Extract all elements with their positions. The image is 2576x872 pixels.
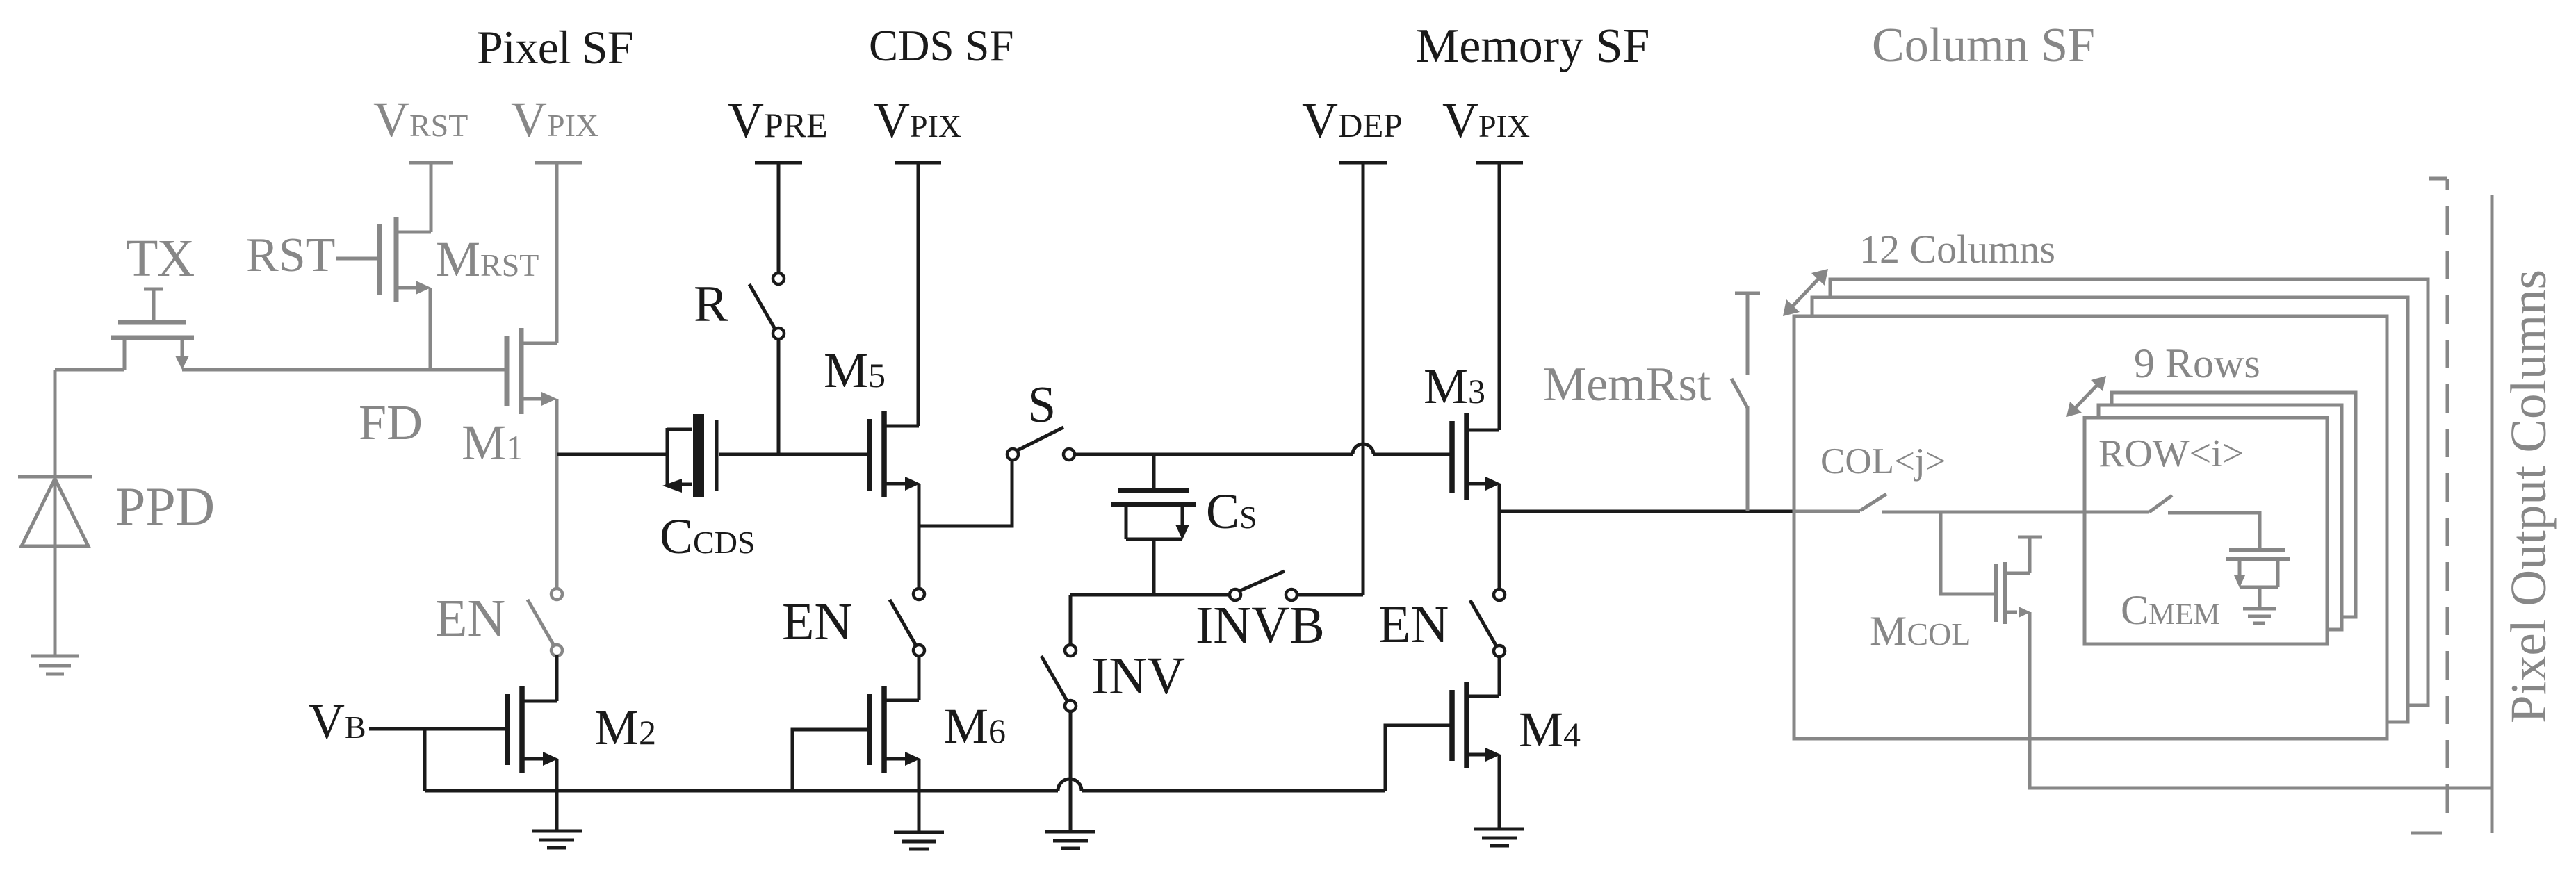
supply MCOL drain xyxy=(2018,537,2042,573)
svg-text:VDEP: VDEP xyxy=(1302,92,1403,148)
wire node FD xyxy=(182,368,505,372)
supply VRST xyxy=(409,163,453,232)
wire R to CCDS node xyxy=(777,338,781,454)
arrow M6 source xyxy=(905,752,920,766)
transistor M2 (current source, black) xyxy=(507,686,557,773)
transistor M6 xyxy=(870,686,919,773)
svg-text:VPIX: VPIX xyxy=(511,92,598,147)
arrow M5 source xyxy=(905,477,920,491)
arrow TX drain xyxy=(175,356,189,370)
svg-text:VPIX: VPIX xyxy=(1442,92,1530,148)
svg-text:PPD: PPD xyxy=(115,476,215,536)
wire hop over VDEP line xyxy=(1353,444,1373,454)
arrow CMEM bulk xyxy=(2234,575,2245,588)
svg-text:VPRE: VPRE xyxy=(728,92,828,148)
transistor M3 (memory SF) xyxy=(1452,413,1499,500)
box 9-rows back xyxy=(2112,393,2356,617)
wire pixel output (to column) xyxy=(1499,510,1795,513)
svg-text:9 Rows: 9 Rows xyxy=(2134,340,2260,386)
svg-text:EN: EN xyxy=(1378,595,1449,654)
wire ROW to CMEM xyxy=(2168,513,2260,550)
switch EN (pixel) xyxy=(528,589,562,656)
svg-text:ROW<i>: ROW<i> xyxy=(2098,432,2244,475)
svg-text:INVB: INVB xyxy=(1196,596,1325,655)
svg-text:M1: M1 xyxy=(462,415,523,470)
wire S to M3 gate (left of hop) xyxy=(1074,453,1353,456)
box 12-columns middle xyxy=(1812,297,2408,722)
svg-text:M4: M4 xyxy=(1519,702,1581,757)
box 9-rows middle xyxy=(2098,405,2342,630)
supply VPIX (memory) xyxy=(1476,163,1523,430)
wire M5 source down to EN xyxy=(918,484,921,589)
plate CCDS xyxy=(693,414,704,497)
wire rail riser to M4 gate xyxy=(1385,725,1452,791)
switch EN (memory) xyxy=(1470,589,1505,657)
switch ROW blade xyxy=(2149,495,2172,512)
arrow MRST source xyxy=(416,281,431,295)
svg-text:INV: INV xyxy=(1091,647,1185,705)
switch S xyxy=(1007,427,1075,460)
supply VDEP xyxy=(1339,163,1387,595)
svg-text:EN: EN xyxy=(782,593,852,651)
wire node to INV xyxy=(1069,595,1073,645)
transistor MCOL xyxy=(1996,562,2030,624)
wire bottom rail left segment xyxy=(425,789,1058,793)
svg-text:R: R xyxy=(694,276,728,333)
transistor M4 xyxy=(1452,682,1499,768)
wire hop to M3 gate xyxy=(1373,453,1452,456)
svg-text:M6: M6 xyxy=(944,698,1006,754)
svg-text:Pixel SF: Pixel SF xyxy=(477,21,633,74)
arrow M4 source xyxy=(1485,748,1501,762)
svg-text:MemRst: MemRst xyxy=(1543,358,1711,411)
svg-text:S: S xyxy=(1027,377,1056,434)
svg-text:Column SF: Column SF xyxy=(1872,19,2095,72)
switch COL blade xyxy=(1860,494,1886,511)
svg-text:TX: TX xyxy=(126,229,194,288)
arrow M3 source xyxy=(1485,477,1501,491)
wire M5 source jog to S switch xyxy=(919,459,1012,526)
ground (CMEM) xyxy=(2243,609,2276,623)
svg-text:CDS SF: CDS SF xyxy=(869,22,1013,70)
wire RST gate xyxy=(336,257,377,261)
dashed array boundary xyxy=(2411,179,2447,833)
wire M3 source to output xyxy=(1498,484,1501,590)
capacitor CS (MOS cap) xyxy=(1111,454,1196,595)
box 12-columns back xyxy=(1830,279,2428,705)
switch MemRst xyxy=(1731,293,1760,511)
wire M6 source to ground xyxy=(918,759,921,832)
wire EN to M4 drain xyxy=(1498,656,1501,696)
transistor TX (transfer gate, gray) xyxy=(55,289,194,370)
arrow 9 rows xyxy=(2066,376,2106,417)
svg-text:CS: CS xyxy=(1206,484,1257,539)
wire MCOL gate tap xyxy=(1941,512,1996,594)
svg-text:EN: EN xyxy=(435,589,505,648)
wire CCDS to M5 gate xyxy=(719,453,870,456)
arrow 12 columns xyxy=(1783,269,1828,316)
svg-text:M2: M2 xyxy=(594,700,656,755)
transistor M1 (pixel SF) xyxy=(507,328,557,414)
photodiode PPD xyxy=(18,370,92,656)
capacitor CMEM (MOS cap) xyxy=(2226,550,2290,607)
arrow M2 source xyxy=(543,752,558,766)
wire CS bottom node xyxy=(1070,593,1230,597)
wire M1 source column (gray) xyxy=(555,399,559,589)
capacitor CCDS (MOS cap, black) xyxy=(667,428,692,486)
switch INV xyxy=(1041,645,1076,711)
switch INVB xyxy=(1230,571,1297,600)
svg-text:FD: FD xyxy=(359,395,423,450)
svg-text:M5: M5 xyxy=(824,343,886,398)
box 12-columns front xyxy=(1794,316,2387,739)
svg-text:VB: VB xyxy=(309,693,366,749)
svg-text:MRST: MRST xyxy=(436,231,539,287)
arrow CCDS bulk xyxy=(662,479,682,493)
wire M2 source to ground xyxy=(555,759,559,831)
wire column input xyxy=(1795,510,1860,513)
wire EN to M2 drain xyxy=(555,655,559,701)
svg-text:12 Columns: 12 Columns xyxy=(1859,227,2055,272)
supply VPIX (pixel) xyxy=(535,163,582,343)
wire VB to M2 gate xyxy=(369,727,507,731)
ground (PPD) xyxy=(31,656,79,674)
svg-text:M3: M3 xyxy=(1424,359,1485,414)
ground (INV) xyxy=(1045,832,1095,848)
arrow MCOL source xyxy=(2019,607,2030,618)
supply VPIX (CDS) xyxy=(895,163,941,426)
svg-text:VPIX: VPIX xyxy=(874,92,961,148)
svg-text:VRST: VRST xyxy=(373,92,468,147)
wire INV to ground xyxy=(1069,711,1073,832)
wire MCOL output xyxy=(2030,612,2492,788)
wire INVB to VDEP line xyxy=(1296,593,1363,597)
wire VB drop to rail xyxy=(423,729,427,791)
wire bottom rail right segment xyxy=(1082,789,1385,793)
transistor MRST xyxy=(380,217,431,370)
line pixel output columns bus xyxy=(2491,195,2494,833)
arrow CS bulk xyxy=(1175,525,1189,540)
box 9-rows front xyxy=(2085,418,2327,644)
ground (M6) xyxy=(894,832,944,849)
wire M6 gate to rail xyxy=(792,730,870,791)
ground (M4) xyxy=(1474,829,1524,846)
svg-text:COL<j>: COL<j> xyxy=(1820,441,1946,482)
gate bar CCDS xyxy=(715,420,719,491)
transistor M5 (CDS SF) xyxy=(870,411,919,497)
wire M4 source to ground xyxy=(1498,755,1501,829)
switch EN (CDS) xyxy=(890,589,924,656)
wire hop over INV line xyxy=(1058,779,1082,791)
wire COL to ROW xyxy=(1882,511,2149,514)
wire M1 source to CCDS xyxy=(557,453,666,456)
svg-text:CCDS: CCDS xyxy=(660,509,756,564)
ground (M2) xyxy=(532,831,582,848)
wire EN to M6 drain xyxy=(918,655,921,700)
switch R xyxy=(749,273,784,339)
svg-text:Memory SF: Memory SF xyxy=(1416,19,1649,73)
supply VPRE xyxy=(755,163,802,274)
arrow M1 source xyxy=(541,392,557,406)
svg-text:Pixel Output Columns: Pixel Output Columns xyxy=(2500,270,2557,723)
svg-text:RST: RST xyxy=(246,229,335,282)
